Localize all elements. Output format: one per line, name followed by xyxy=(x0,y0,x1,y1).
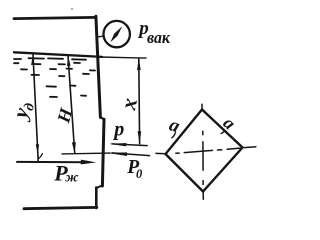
diamond vertical centerline xyxy=(202,104,203,199)
svg-text:уд: уд xyxy=(7,98,38,124)
water dashes row 3 xyxy=(21,69,95,71)
svg-text:вак: вак xyxy=(147,28,170,47)
water dashes row 2 xyxy=(14,63,80,65)
water dashes row 4 xyxy=(32,74,90,76)
arrowhead P_zh xyxy=(81,160,97,165)
svg-text:ж: ж xyxy=(65,170,79,185)
tank bottom wall xyxy=(24,207,97,208)
water dashes row 1 xyxy=(14,58,86,60)
dimension y_d down arrowhead xyxy=(36,144,39,154)
dimension y_d up arrowhead xyxy=(31,55,34,65)
vacuum gauge body xyxy=(104,21,130,47)
liquid free surface line xyxy=(14,52,102,57)
tank top wall xyxy=(14,17,96,18)
tank right wall bottom stub xyxy=(95,188,98,209)
tank right wall upper xyxy=(96,16,101,117)
diamond plate (square opening) xyxy=(166,110,243,192)
surface reference extension right of wall xyxy=(100,57,146,58)
water dashes row 6 xyxy=(50,96,86,98)
tank right wall lower xyxy=(102,119,104,186)
dimension line x xyxy=(138,58,141,143)
hook tick at y_d arrow xyxy=(38,154,42,159)
svg-text:H: H xyxy=(53,105,76,126)
svg-text:p: p xyxy=(112,119,124,141)
dimension line y_d xyxy=(33,55,38,162)
svg-text:0: 0 xyxy=(136,167,143,181)
water dashes row 5 xyxy=(47,86,76,87)
arrowhead p xyxy=(109,143,126,146)
paper speck xyxy=(71,8,73,10)
vacuum gauge needle xyxy=(110,26,122,42)
dimension line H xyxy=(68,56,75,154)
tail of left a xyxy=(172,133,176,138)
dimension H up arrowhead xyxy=(67,56,71,66)
H bottom reference line xyxy=(62,152,110,155)
force arrow P_zh xyxy=(17,161,88,163)
dimension x up arrowhead xyxy=(137,58,141,70)
svg-text:x: x xyxy=(115,96,142,113)
diamond horizontal centerline xyxy=(156,147,256,154)
tail of right a xyxy=(221,131,224,134)
vacuum gauge connector xyxy=(97,35,104,38)
dimension x down arrowhead xyxy=(138,131,142,144)
pressure arrow P0 xyxy=(112,153,150,156)
pressure arrow p xyxy=(112,144,147,146)
wall jog at opening bottom xyxy=(96,185,102,188)
dimension H down arrowhead xyxy=(72,142,76,153)
arrowhead P0 xyxy=(107,152,127,156)
wall step at opening top xyxy=(100,117,104,119)
